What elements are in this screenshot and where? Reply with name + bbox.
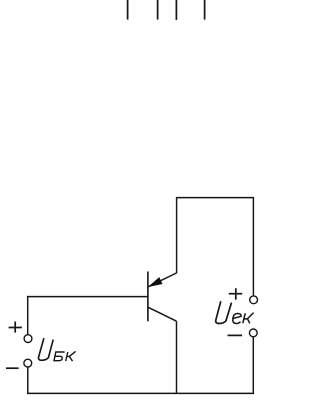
transistor VT1 emitter arrow	[149, 278, 162, 287]
label Ubk	[39, 338, 76, 361]
wire: bottom rail	[27, 392, 254, 394]
wire: collector drop to bottom rail	[176, 321, 178, 393]
wire: right rail lower	[252, 337, 254, 394]
label + (Uek)	[229, 288, 242, 300]
source Uek + terminal	[250, 296, 258, 304]
wire: emitter riser	[176, 198, 178, 274]
wire: base lead	[27, 296, 148, 298]
wire: left rail upper	[27, 296, 29, 335]
wire: top rail	[176, 197, 254, 199]
transistor VT1 base bar	[147, 272, 149, 322]
label − (Ubk)	[6, 367, 19, 369]
source Ubk − terminal	[24, 359, 32, 367]
label Uek	[216, 301, 254, 323]
wire: top stub lead 3	[175, 0, 177, 20]
transistor VT1 emitter diagonal	[148, 273, 176, 287]
wire: top stub lead 1	[127, 0, 129, 20]
label − (Uek)	[228, 334, 243, 336]
wire: top stub lead 4	[204, 0, 206, 20]
wire: top stub lead 2	[157, 0, 159, 20]
wire: right rail upper	[252, 198, 254, 296]
source Uek − terminal	[249, 329, 257, 337]
transistor VT1 collector diagonal	[148, 307, 176, 321]
source Ubk + terminal	[24, 335, 32, 343]
wire: left rail lower	[27, 367, 29, 393]
label + (Ubk)	[9, 322, 22, 333]
